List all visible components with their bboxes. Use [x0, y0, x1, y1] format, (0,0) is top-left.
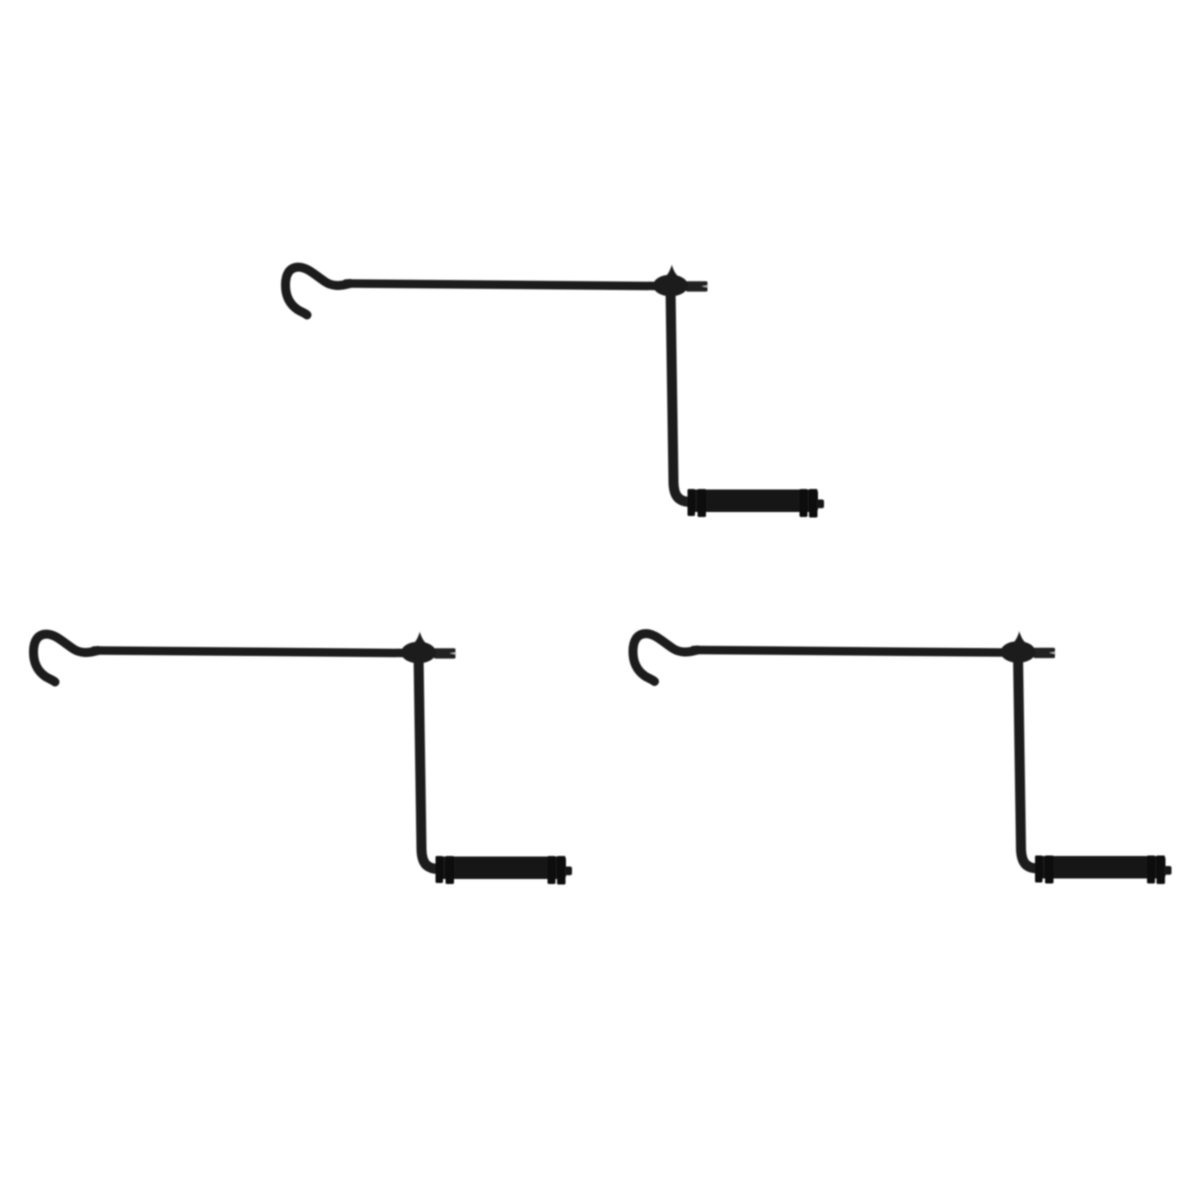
crank handle 3 (bottom right) — [633, 631, 1172, 884]
crank handle 2 (bottom left) — [34, 632, 573, 885]
crank handle 1 (top) — [286, 265, 825, 518]
